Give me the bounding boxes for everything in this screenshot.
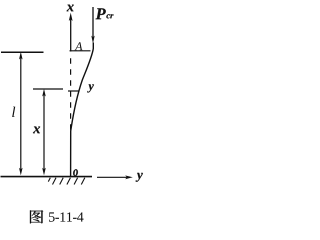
origin label o — [73, 169, 78, 176]
label P_cr — [96, 8, 106, 19]
y-axis arrow (horizontal, right) — [97, 175, 133, 179]
deflection tick at y — [68, 90, 79, 92]
caption text 5-11-4 — [49, 212, 84, 221]
label y (deflection) — [87, 84, 94, 92]
ground hatching — [48, 178, 85, 185]
l top extension tick — [1, 51, 44, 53]
dimension line l (with arrows both ends) — [19, 52, 23, 176]
label A — [75, 42, 83, 50]
x-axis dashed continuation (undeformed column axis) — [70, 58, 72, 131]
dimension line x (with arrows both ends) — [42, 89, 46, 176]
load arrow P_cr — [91, 7, 94, 44]
x-axis arrow (vertical, up) — [69, 13, 73, 52]
label x (dimension) — [33, 127, 40, 134]
label l — [12, 107, 15, 117]
column deflected curve — [71, 43, 94, 177]
ground line — [1, 176, 93, 178]
caption glyph 图 — [30, 210, 43, 223]
y-axis label y — [136, 173, 143, 182]
x-axis label x — [67, 5, 74, 12]
point A level tick — [70, 50, 91, 52]
x top tick — [33, 88, 63, 90]
